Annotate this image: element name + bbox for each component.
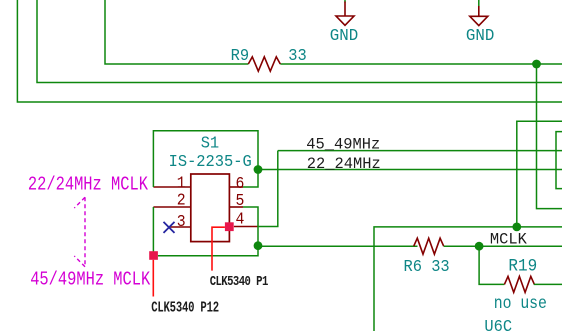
pin 1 <box>153 186 190 188</box>
wire MCLK upper <box>374 227 562 331</box>
pin 5 <box>229 206 243 208</box>
ground GND1 <box>330 2 359 46</box>
component S1 body <box>191 174 230 242</box>
svg-text:22/24MHz MCLK: 22/24MHz MCLK <box>28 174 148 196</box>
svg-text:IS-2235-G: IS-2235-G <box>169 152 252 171</box>
wire 45_49MHz <box>278 150 562 152</box>
pin 6 <box>229 186 243 188</box>
svg-text:S1: S1 <box>201 134 219 153</box>
svg-text:GND: GND <box>466 26 495 46</box>
svg-text:2: 2 <box>177 191 186 210</box>
wire GND2 lead <box>478 0 480 6</box>
wire pin1 loop over S1 <box>153 131 258 187</box>
svg-text:1: 1 <box>177 174 186 193</box>
wire S1 to R6 <box>258 245 418 248</box>
resistor R9 <box>248 57 280 71</box>
svg-text:R9: R9 <box>231 46 249 65</box>
wire from R9 junction down and right <box>537 64 562 209</box>
wire outer-left L <box>17 0 562 102</box>
sheet pin square on pin 4 <box>225 222 234 231</box>
wire middle-left L <box>37 0 562 83</box>
junction dot R19 tap <box>475 242 484 251</box>
svg-text:3: 3 <box>177 212 186 231</box>
wire sheet pin to S1 lower junction <box>158 207 258 256</box>
pin 3 <box>169 226 191 228</box>
no-connect X on pin 3 <box>164 222 175 233</box>
wire R19 right to edge <box>534 283 562 285</box>
wire GND1 lead <box>344 0 346 3</box>
svg-text:no use: no use <box>494 293 547 314</box>
pin 2 <box>153 206 190 208</box>
svg-text:4: 4 <box>236 210 245 229</box>
resistor R6 <box>414 238 444 254</box>
leader line CLK5340 P12 <box>152 260 154 297</box>
dashed arrow between MCLK labels <box>74 197 85 266</box>
svg-text:U6C: U6C <box>484 318 512 331</box>
junction dot pin5 net <box>254 241 263 250</box>
leader line CLK5340 P1 <box>212 227 225 270</box>
svg-text:R19: R19 <box>508 257 537 277</box>
ground GND2 <box>466 6 495 45</box>
wire right top corner <box>517 121 562 227</box>
svg-text:22_24MHz: 22_24MHz <box>307 155 381 173</box>
svg-text:CLK5340 P1: CLK5340 P1 <box>210 274 268 290</box>
pin 4 <box>234 226 259 228</box>
svg-text:45/49MHz MCLK: 45/49MHz MCLK <box>30 269 150 291</box>
wire R6 right to edge <box>444 245 562 247</box>
wire pin4 to 45_49MHz <box>259 151 278 227</box>
junction dot on R9 net <box>532 60 541 69</box>
wire down to R19 <box>479 246 504 284</box>
svg-text:45_49MHz: 45_49MHz <box>306 135 380 153</box>
svg-text:6: 6 <box>236 174 245 193</box>
junction dot 22_24 <box>254 165 263 174</box>
wire 22_24MHz <box>258 169 562 171</box>
svg-text:33: 33 <box>288 46 306 65</box>
junction dot MCLK upper <box>512 223 521 232</box>
resistor R19 <box>504 276 534 292</box>
wire R9 right to edge <box>280 63 562 65</box>
svg-text:GND: GND <box>330 26 359 46</box>
wire right bracket <box>556 132 562 189</box>
wire inner-left L to R9 <box>105 0 248 64</box>
svg-text:CLK5340 P12: CLK5340 P12 <box>151 300 219 316</box>
sheet pin square on pin 2 net <box>149 251 158 260</box>
wire pin2 down to sheet pin <box>152 207 154 252</box>
svg-text:R6 33: R6 33 <box>404 257 450 276</box>
